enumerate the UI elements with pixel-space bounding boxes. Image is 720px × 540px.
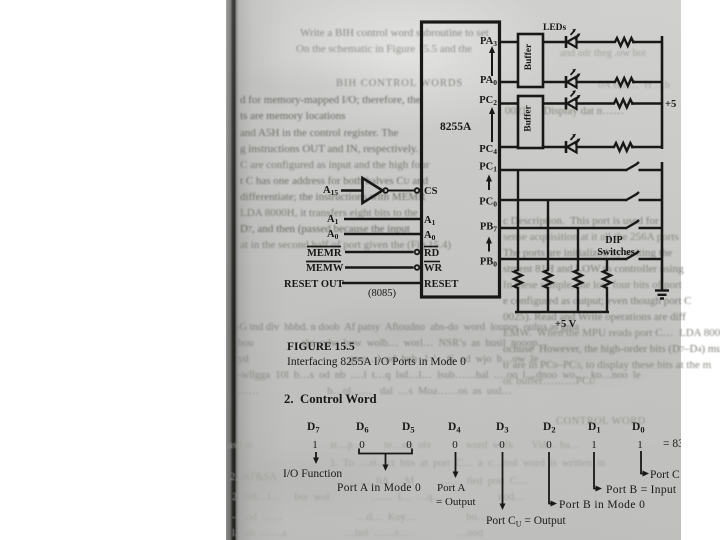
wire SW2 to ground rail: [639, 199, 664, 201]
svg-text:= 83: = 83: [663, 438, 684, 450]
wire pull-up dropper PB7: [577, 228, 579, 268]
resistor R1: [613, 38, 635, 46]
wire RESET OUT to chip: [342, 282, 421, 284]
LED D4: [566, 134, 581, 153]
svg-text:RESET: RESET: [424, 279, 458, 290]
svg-text:PB7: PB7: [480, 222, 497, 234]
svg-text:Port C: Port C: [650, 469, 680, 481]
svg-text:A0: A0: [327, 229, 339, 241]
wire PB7 chip to switch SW3: [499, 227, 627, 229]
wire LED4 to resistor R4: [577, 146, 613, 148]
RD pin bubble: [415, 250, 420, 255]
node MEMR with overline: [307, 247, 342, 260]
svg-text:A0: A0: [424, 230, 436, 242]
svg-text:1: 1: [637, 439, 643, 451]
svg-text:PA0: PA0: [480, 75, 497, 87]
+5V bottom rail: [515, 311, 609, 314]
svg-text:D6: D6: [356, 421, 369, 435]
arrow D1 to Port B = Input: [594, 452, 602, 492]
wire R5 to +5V rail: [517, 291, 519, 313]
wire A15 to inverter: [341, 189, 362, 191]
switch SW4 lever: [626, 251, 640, 260]
svg-text:D2: D2: [543, 421, 556, 435]
bracket D6 D5: [359, 449, 412, 472]
svg-text:Port A in Mode 0: Port A in Mode 0: [337, 482, 421, 494]
wire PC4 chip to buffer: [499, 146, 518, 148]
arrow D4 to Port A: [453, 452, 459, 478]
svg-text:Interfacing 8255A I/O Ports in: Interfacing 8255A I/O Ports in Mode 0: [287, 356, 466, 368]
wire PA3 chip to buffer: [499, 41, 518, 43]
wire R6 to +5V rail: [547, 291, 549, 313]
svg-text:D3: D3: [496, 421, 509, 435]
wire R8 to +5V rail: [606, 291, 608, 313]
resistor R4: [612, 143, 634, 151]
svg-text:Buffer: Buffer: [524, 43, 534, 70]
switch SW2 lever: [626, 192, 640, 201]
svg-text:+5: +5: [665, 99, 676, 110]
resistor R6: [544, 268, 552, 291]
svg-text:LEDs: LEDs: [543, 23, 567, 33]
svg-text:1: 1: [312, 439, 318, 451]
wire pull-up dropper PC1: [517, 170, 519, 268]
svg-text:D5: D5: [402, 421, 415, 435]
svg-text:I/O Function: I/O Function: [283, 468, 342, 480]
wire PC2 chip to buffer: [499, 102, 518, 104]
resistor R3: [612, 100, 634, 108]
svg-text:Buffer: Buffer: [524, 105, 534, 132]
LED D1: [566, 29, 581, 48]
svg-text:1: 1: [591, 439, 597, 451]
LED D3: [566, 90, 581, 109]
pin label RD with overline: [424, 247, 440, 260]
ground rail (switch side): [661, 162, 664, 290]
svg-text:0: 0: [546, 439, 552, 451]
inverter gate (NOT): [363, 178, 388, 203]
wire SW1 to ground rail: [639, 169, 664, 171]
faint scanned book text goes here: [0, 0, 720, 1]
arrow PB0 to PB7: [486, 237, 492, 252]
svg-text:A1: A1: [327, 214, 339, 226]
node MEMW with overline: [306, 262, 344, 275]
wire LED3 to resistor R3: [577, 102, 613, 104]
LED D2: [566, 69, 581, 88]
wire inverter to CS bubble: [389, 190, 415, 192]
svg-text:Port B in Mode 0: Port B in Mode 0: [559, 499, 645, 511]
wire A0: [344, 233, 421, 235]
wire pull-up dropper PC0: [547, 200, 549, 268]
svg-text:Port CU = Output: Port CU = Output: [486, 515, 566, 529]
svg-text:MEMW: MEMW: [306, 263, 344, 274]
wire PA0 buffer to LED2: [543, 81, 566, 83]
svg-text:Port A: Port A: [437, 482, 465, 494]
WR pin bubble: [415, 265, 420, 270]
switch SW1 lever: [626, 162, 640, 171]
wire PC1 chip to switch SW1: [499, 169, 627, 171]
svg-text:0: 0: [499, 439, 505, 451]
svg-text:PC0: PC0: [479, 197, 497, 209]
svg-text:MEMR: MEMR: [307, 248, 342, 259]
svg-text:0: 0: [359, 439, 365, 451]
resistor R5: [514, 268, 522, 291]
label Port A = Output: [436, 482, 476, 508]
arrow D7 to I/O Function: [313, 452, 319, 464]
svg-text:(8085): (8085): [368, 288, 396, 299]
resistor R7: [574, 268, 582, 291]
svg-text:D4: D4: [448, 421, 461, 435]
figure caption and control word section: [283, 341, 684, 529]
wire R1 to +5 rail: [632, 41, 663, 43]
resistor R8: [603, 268, 611, 291]
svg-text:D0: D0: [632, 421, 645, 435]
ground: [655, 291, 669, 299]
wire PA3 buffer to LED1: [543, 41, 566, 43]
svg-text:0: 0: [452, 439, 458, 451]
svg-text:= Output: = Output: [436, 496, 476, 508]
svg-text:A15: A15: [323, 185, 338, 197]
wire PC2 buffer to LED3: [543, 102, 566, 104]
wire R7 to +5V rail: [577, 291, 579, 313]
wire R3 to +5 rail: [631, 102, 663, 104]
wire PA0 chip to buffer: [499, 81, 518, 83]
label DIP Switches: [597, 235, 634, 258]
svg-text:8255A: 8255A: [440, 121, 472, 133]
wire pull-up dropper PB0: [606, 259, 608, 268]
wire R4 to +5 rail: [631, 146, 663, 148]
+5 V rail (LED side): [661, 36, 664, 149]
pin label WR with overline: [424, 262, 443, 275]
wire LED1 to resistor R1: [577, 41, 614, 43]
arrow D0 to Port C: [641, 451, 649, 477]
svg-text:PB0: PB0: [480, 257, 497, 269]
svg-text:D1: D1: [588, 421, 601, 435]
svg-text:PC2: PC2: [479, 95, 497, 107]
svg-text:WR: WR: [424, 263, 443, 274]
wire MEMW to WR bubble: [345, 266, 414, 268]
arrow PC0 to PC1: [486, 175, 492, 191]
buffer U3: [518, 96, 543, 148]
CS pin bubble: [415, 188, 420, 193]
svg-text:PA3: PA3: [480, 36, 497, 48]
resistor R2: [613, 78, 635, 86]
svg-text:RESET OUT: RESET OUT: [284, 279, 344, 290]
wire PB0 chip to switch SW4: [499, 258, 627, 260]
wire SW3 to ground rail: [639, 227, 664, 229]
arrow PA0 to PA3: [489, 46, 495, 76]
wire A1: [344, 218, 421, 220]
switch SW3 lever: [626, 220, 640, 229]
svg-text:RD: RD: [424, 248, 440, 259]
arrow PC4 to PC2: [489, 107, 495, 142]
svg-text:+5 V: +5 V: [555, 319, 577, 330]
wire LED2 to resistor R2: [577, 81, 614, 83]
wire SW4 to ground rail: [639, 258, 664, 260]
svg-text:A1: A1: [424, 215, 436, 227]
svg-text:FIGURE 15.5: FIGURE 15.5: [287, 341, 355, 353]
svg-text:PC1: PC1: [479, 162, 497, 174]
wire PC0 chip to switch SW2: [499, 199, 627, 201]
svg-text:PC4: PC4: [479, 144, 497, 156]
wire PC4 buffer to LED4: [543, 146, 566, 148]
arrow D3 to Port CU: [500, 452, 506, 510]
arrow D2 to Port B in Mode 0: [549, 452, 557, 507]
wire MEMR to RD bubble: [345, 251, 414, 253]
svg-text:2. Control Word: 2. Control Word: [284, 392, 377, 406]
svg-text:CS: CS: [424, 186, 438, 197]
buffer U2: [518, 34, 543, 87]
wire R2 to +5 rail: [632, 81, 663, 83]
svg-text:Port B = Input: Port B = Input: [606, 484, 677, 496]
svg-text:D7: D7: [307, 421, 320, 435]
svg-text:Switches: Switches: [597, 247, 634, 258]
svg-text:DIP: DIP: [605, 235, 622, 246]
op-amp U1 8255A PPI chip body: [422, 22, 500, 297]
